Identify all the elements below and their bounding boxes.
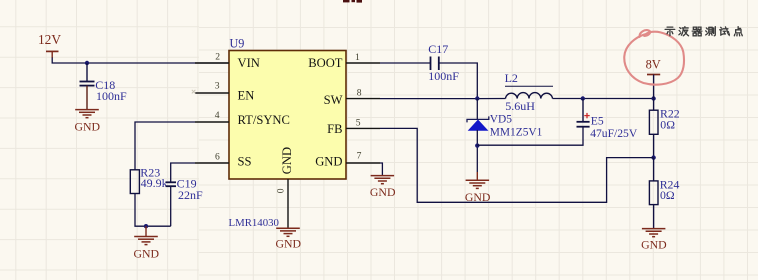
svg-text:GND: GND: [370, 185, 396, 199]
svg-text:12V: 12V: [38, 32, 61, 47]
wire VD5 anode down: [476, 130, 478, 172]
svg-text:1: 1: [355, 52, 360, 63]
wire C17 to SW rail: [439, 63, 478, 99]
pin 8 SW: [346, 87, 380, 98]
ground under R23/C19: [134, 226, 158, 244]
wire C19 bottom to ground node: [170, 186, 172, 226]
pin 4 RT/SYNC: [195, 110, 229, 122]
svg-text:100nF: 100nF: [96, 89, 127, 103]
svg-text:3: 3: [215, 81, 220, 92]
junction 12V rail / C18: [85, 61, 89, 65]
svg-text:0Ω: 0Ω: [660, 188, 675, 202]
wire FB to R22/R24 divider: [380, 128, 654, 202]
svg-text:GND: GND: [75, 119, 101, 133]
pin 2 VIN: [195, 52, 229, 63]
power port 12V: [38, 32, 61, 58]
wire L2 to 8V node: [553, 98, 654, 100]
resistor R24 0R: [649, 158, 679, 229]
svg-text:6: 6: [215, 152, 220, 163]
svg-text:2: 2: [215, 52, 220, 63]
pin 1 BOOT: [346, 52, 380, 63]
svg-text:L2: L2: [505, 71, 518, 85]
svg-text:22nF: 22nF: [178, 188, 203, 202]
svg-text:5: 5: [356, 117, 361, 128]
svg-text:GND: GND: [641, 237, 667, 251]
ground under C18: [75, 110, 99, 118]
svg-text:100nF: 100nF: [428, 69, 459, 83]
ground under R24: [642, 229, 666, 237]
svg-text:SW: SW: [324, 93, 343, 107]
ground under pin 7: [371, 176, 395, 184]
svg-text:U9: U9: [230, 36, 245, 50]
svg-text:47uF/25V: 47uF/25V: [590, 127, 638, 140]
annotation text oscilloscope test point (CJK drawn as paths): [665, 27, 742, 36]
pin 3 EN: [195, 81, 229, 93]
svg-text:VD5: VD5: [490, 114, 512, 126]
annotation hand-drawn ellipse around 8V: [624, 30, 684, 84]
svg-text:0Ω: 0Ω: [660, 117, 675, 131]
pin 5 FB: [346, 117, 380, 128]
IC U9 LMR14030 body: [229, 36, 347, 229]
svg-text:VIN: VIN: [238, 56, 260, 70]
ground under VD5: [466, 172, 490, 188]
svg-text:C17: C17: [428, 42, 448, 56]
junction SW/C17/VD5: [475, 96, 479, 100]
no-ERC marker on EN pin: [192, 90, 196, 94]
svg-text:MM1Z5V1: MM1Z5V1: [490, 126, 543, 138]
svg-text:7: 7: [357, 151, 362, 162]
capacitor E5 47uF/25V: [577, 99, 638, 141]
junction FB / R22 / R24: [651, 155, 655, 159]
svg-text:BOOT: BOOT: [308, 56, 343, 70]
junction 8V / R22: [651, 96, 655, 100]
resistor R22 0R: [649, 99, 679, 158]
wire SW to L2: [380, 98, 506, 100]
svg-text:GND: GND: [276, 237, 302, 251]
resistor R23 49.9k: [130, 166, 167, 194]
svg-text:8: 8: [357, 87, 362, 98]
svg-text:FB: FB: [327, 122, 342, 136]
svg-text:4: 4: [215, 110, 220, 121]
wire E5 to ground return: [477, 127, 583, 146]
svg-text:SS: SS: [238, 154, 252, 168]
svg-text:EN: EN: [238, 88, 255, 102]
svg-text:LMR14030: LMR14030: [229, 217, 279, 229]
pin 7 GND: [346, 151, 380, 163]
svg-text:49.9k: 49.9k: [141, 176, 168, 190]
cropped net label text at top edge: [343, 0, 362, 3]
pin 0 GND bottom: [276, 179, 289, 228]
inductor L2 5.6uH: [505, 71, 553, 113]
capacitor C17 100nF: [428, 42, 459, 83]
junction R23/C19 ground tee: [144, 224, 148, 228]
junction E5 tap: [581, 96, 585, 100]
svg-text:8V: 8V: [646, 58, 661, 72]
wire pin 7 to ground: [380, 163, 382, 175]
svg-text:RT/SYNC: RT/SYNC: [238, 113, 290, 127]
U9 pin names: [238, 56, 343, 174]
svg-text:GND: GND: [315, 154, 342, 168]
svg-text:0: 0: [276, 188, 287, 193]
pin 6 SS: [195, 152, 229, 164]
svg-text:GND: GND: [134, 247, 160, 261]
wire BOOT to C17: [380, 62, 430, 64]
wire RT/SYNC to R23: [135, 122, 195, 170]
svg-text:E5: E5: [591, 115, 604, 128]
svg-text:GND: GND: [280, 147, 294, 174]
capacitor C18 100nF: [80, 63, 128, 110]
wire 12V to VIN: [52, 58, 229, 64]
svg-text:5.6uH: 5.6uH: [505, 99, 535, 113]
zener diode VD5 MM1Z5V1: [467, 114, 543, 139]
capacitor C19 22nF: [166, 176, 203, 202]
power port 8V: [646, 58, 661, 99]
ground under U9 pin 0: [276, 228, 300, 236]
junction VD5 anode / E5 return: [475, 143, 479, 147]
wire R23 bottom to ground node: [135, 194, 171, 227]
wire SS to C19: [171, 163, 195, 182]
wire SW rail to VD5 cathode: [476, 99, 478, 120]
